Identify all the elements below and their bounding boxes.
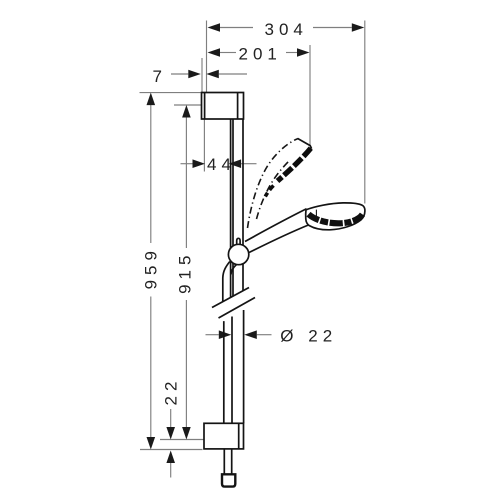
- svg-text:201: 201: [239, 45, 282, 64]
- svg-text:959: 959: [142, 246, 161, 289]
- svg-text:7: 7: [153, 67, 167, 86]
- svg-text:304: 304: [265, 20, 308, 39]
- svg-text:Ø 22: Ø 22: [280, 327, 337, 346]
- svg-text:44: 44: [207, 155, 236, 174]
- svg-text:915: 915: [176, 251, 195, 294]
- svg-text:22: 22: [161, 377, 180, 406]
